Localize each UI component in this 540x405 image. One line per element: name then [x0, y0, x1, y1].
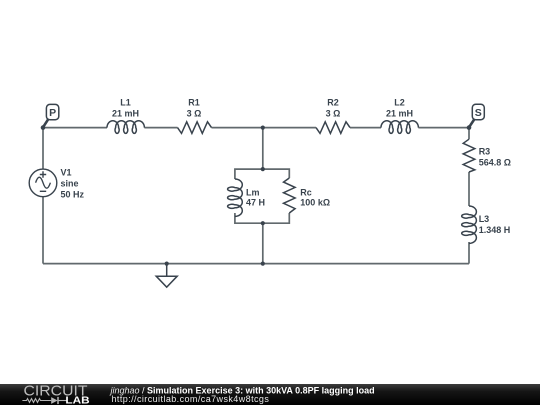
svg-text:L2: L2 — [394, 98, 405, 108]
ground — [156, 264, 177, 288]
wire: right rail S to R3 — [468, 128, 470, 140]
wire: bottom rail — [43, 263, 469, 265]
wire: L1 to R1 — [144, 127, 177, 129]
footer title line — [110, 385, 375, 395]
resistor R3 — [463, 139, 511, 172]
wire: L2 to S — [418, 127, 469, 129]
svg-text:47 H: 47 H — [246, 198, 265, 208]
svg-text:21 mH: 21 mH — [386, 109, 413, 119]
inductor L1 — [107, 98, 144, 134]
wire: L3 to bottom rail — [468, 242, 470, 264]
svg-text:3 Ω: 3 Ω — [326, 109, 341, 119]
voltage source V1 — [29, 168, 84, 200]
wire: top rail P to L1 — [43, 127, 107, 129]
junction dot top of middle branch — [261, 126, 265, 130]
svg-text:3 Ω: 3 Ω — [187, 109, 202, 119]
footer url line — [112, 394, 270, 404]
svg-text:R3: R3 — [479, 147, 491, 157]
inductor L2 — [381, 98, 418, 134]
inductor Lm — [228, 179, 265, 216]
svg-text:V1: V1 — [61, 168, 72, 178]
CircuitLab logo wordmark — [24, 384, 88, 400]
resistor R1 — [178, 98, 212, 134]
resistor Rc — [284, 178, 331, 213]
resistor R2 — [316, 98, 350, 134]
svg-text:564.8 Ω: 564.8 Ω — [479, 157, 511, 167]
svg-text:L1: L1 — [120, 98, 131, 108]
inductor L3 — [462, 206, 511, 243]
junction dot bottom rail middle — [261, 262, 265, 266]
logo resistor-diode symbol — [22, 397, 66, 404]
junction dot parallel top — [261, 167, 265, 171]
wire: parallel to bottom rail — [262, 223, 264, 263]
wire: parallel box top — [235, 169, 289, 179]
wire: R2 to L2 — [350, 127, 381, 129]
svg-text:Lm: Lm — [246, 188, 260, 198]
node S flag — [469, 104, 484, 127]
svg-text:P: P — [49, 107, 56, 119]
footer bar — [0, 384, 540, 405]
svg-text:21 mH: 21 mH — [112, 109, 139, 119]
wire: R3 to L3 — [468, 172, 470, 206]
logo LAB text — [65, 396, 89, 405]
wire: left rail top (P to V1) — [42, 128, 44, 170]
wire: left rail bottom (V1 to bottom rail) — [42, 197, 44, 264]
junction dot parallel bottom — [261, 221, 265, 225]
junction dot ground — [165, 262, 169, 266]
svg-text:http://circuitlab.com/ca7wsk4w: http://circuitlab.com/ca7wsk4w8tcgs — [112, 394, 270, 404]
svg-text:Rc: Rc — [300, 188, 312, 198]
svg-text:1.348 H: 1.348 H — [479, 225, 511, 235]
svg-text:R1: R1 — [188, 98, 200, 108]
node P flag — [43, 104, 59, 127]
junction dot node P — [41, 125, 46, 130]
svg-text:100 kΩ: 100 kΩ — [300, 198, 330, 208]
wire: parallel box bottom — [235, 213, 289, 223]
svg-text:50 Hz: 50 Hz — [61, 190, 85, 200]
wire: R1 to R2 — [212, 127, 317, 129]
svg-text:sine: sine — [61, 179, 79, 189]
svg-text:L3: L3 — [479, 214, 490, 224]
svg-text:S: S — [475, 107, 482, 119]
wire: middle branch drop — [262, 128, 264, 170]
svg-text:R2: R2 — [327, 98, 339, 108]
svg-text:LAB: LAB — [65, 396, 89, 405]
junction dot node S — [467, 125, 472, 130]
